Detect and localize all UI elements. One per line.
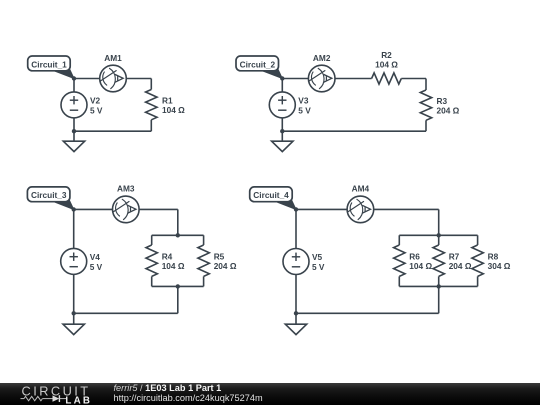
ground [63, 314, 84, 334]
wire [177, 286, 179, 313]
svg-text:204 Ω: 204 Ω [437, 106, 460, 116]
wire [399, 234, 477, 236]
ammeter AM3 [113, 196, 140, 223]
resistor R7 [433, 245, 444, 276]
wire [203, 276, 205, 286]
net flag Circuit_1 [28, 56, 74, 79]
voltage source V2 [61, 92, 87, 118]
svg-text:104 Ω: 104 Ω [162, 105, 185, 115]
svg-text:104 Ω: 104 Ω [409, 261, 432, 271]
node junction [72, 76, 76, 80]
node junction [72, 129, 76, 133]
voltage source V4 [61, 248, 87, 274]
svg-text:Circuit_4: Circuit_4 [253, 190, 289, 200]
svg-text:http://circuitlab.com/c24kuqk7: http://circuitlab.com/c24kuqk75274m [114, 393, 263, 403]
net flag Circuit_3 [27, 187, 73, 210]
resistor R8 [472, 245, 483, 276]
wire [74, 130, 151, 132]
wire [425, 79, 427, 91]
node junction [294, 311, 298, 315]
svg-text:104 Ω: 104 Ω [162, 261, 185, 271]
ammeter AM4 [347, 196, 374, 223]
wire [398, 276, 400, 286]
svg-text:5 V: 5 V [90, 262, 103, 272]
wire [152, 285, 204, 287]
net flag Circuit_4 [250, 187, 296, 210]
svg-text:204 Ω: 204 Ω [214, 261, 237, 271]
wire [177, 209, 179, 235]
node junction [72, 207, 76, 211]
resistor R4 [146, 245, 157, 276]
svg-text:R1: R1 [162, 96, 173, 106]
wire [399, 285, 477, 287]
wire [425, 120, 427, 131]
svg-text:104 Ω: 104 Ω [375, 60, 398, 70]
svg-text:V4: V4 [90, 252, 101, 262]
svg-text:Circuit_2: Circuit_2 [240, 59, 276, 69]
svg-text:5 V: 5 V [312, 262, 325, 272]
ground [63, 131, 84, 151]
wire [73, 79, 75, 132]
wire [151, 235, 153, 245]
wire [151, 276, 153, 286]
svg-text:R3: R3 [437, 96, 448, 106]
node junction [72, 311, 76, 315]
ground [285, 314, 306, 334]
resistor R3 [420, 90, 431, 120]
svg-text:R5: R5 [214, 252, 225, 262]
wire [150, 79, 152, 90]
svg-text:R6: R6 [409, 252, 420, 262]
svg-text:ferrir5 / 1E03 Lab 1 Part 1: ferrir5 / 1E03 Lab 1 Part 1 [114, 383, 222, 393]
resistor R1 [146, 90, 157, 120]
ammeter AM2 [308, 65, 335, 92]
svg-text:LAB: LAB [65, 395, 92, 405]
wire [282, 130, 426, 132]
svg-text:Circuit_1: Circuit_1 [31, 59, 67, 69]
svg-text:Circuit_3: Circuit_3 [31, 190, 67, 200]
wire [295, 209, 297, 313]
ammeter AM1 [100, 65, 127, 92]
svg-text:AM1: AM1 [104, 53, 122, 63]
wire [398, 235, 400, 245]
wire [74, 208, 178, 210]
wire [438, 235, 440, 245]
svg-text:V5: V5 [312, 252, 323, 262]
footer logo circuit squiggle (resistor + diode) [21, 395, 67, 402]
node junction [437, 284, 441, 288]
wire [203, 235, 205, 245]
svg-text:V3: V3 [298, 96, 309, 106]
resistor R6 [394, 245, 405, 276]
wire [150, 120, 152, 131]
svg-text:AM2: AM2 [313, 53, 331, 63]
svg-text:R4: R4 [162, 252, 173, 262]
ground [272, 131, 293, 151]
wire [152, 234, 204, 236]
wire [296, 208, 439, 210]
node junction [280, 76, 284, 80]
wire [74, 78, 151, 80]
svg-text:AM4: AM4 [352, 184, 370, 194]
svg-text:304 Ω: 304 Ω [488, 261, 511, 271]
wire [438, 286, 440, 313]
svg-text:R7: R7 [449, 252, 460, 262]
net flag Circuit_2 [236, 56, 282, 79]
node junction [176, 233, 180, 237]
voltage source V3 [269, 92, 295, 118]
svg-text:R2: R2 [381, 50, 392, 60]
svg-text:204 Ω: 204 Ω [449, 261, 472, 271]
wire [282, 78, 371, 80]
wire [438, 276, 440, 286]
resistor R5 [198, 245, 209, 276]
node junction [437, 233, 441, 237]
node junction [280, 129, 284, 133]
node junction [294, 207, 298, 211]
svg-text:5 V: 5 V [90, 105, 103, 115]
svg-text:R8: R8 [488, 252, 499, 262]
wire [477, 235, 479, 245]
wire [73, 209, 75, 313]
voltage source V5 [283, 249, 309, 275]
wire [401, 78, 426, 80]
footer bar [0, 383, 540, 405]
svg-text:V2: V2 [90, 96, 101, 106]
wire [296, 312, 439, 314]
wire [74, 312, 178, 314]
wire [477, 276, 479, 286]
svg-text:5 V: 5 V [298, 105, 311, 115]
wire [438, 209, 440, 235]
svg-text:AM3: AM3 [117, 184, 135, 194]
resistor R2 [372, 73, 402, 84]
node junction [176, 284, 180, 288]
wire [281, 79, 283, 132]
